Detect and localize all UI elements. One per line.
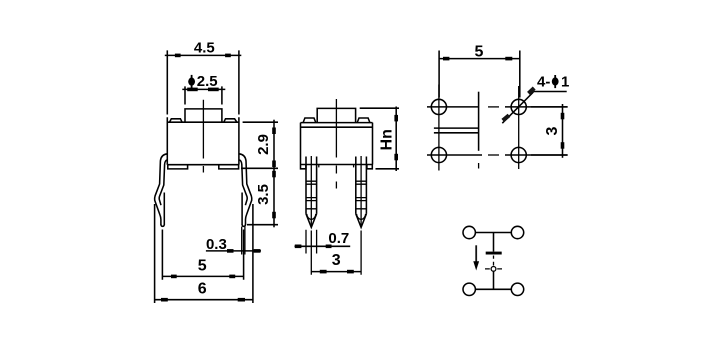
dimension 4.5 extension line left / body left edge bbox=[166, 50, 168, 164]
svg-text:0.3: 0.3 bbox=[206, 236, 227, 253]
dimension 4.5 extension line right / body right edge bbox=[238, 50, 240, 164]
svg-text:3: 3 bbox=[332, 252, 341, 269]
body inner edge upper bbox=[434, 127, 479, 129]
wire bottom terminals bbox=[475, 288, 511, 290]
body right edge bbox=[478, 92, 480, 151]
side view bottom notch ticks bbox=[319, 165, 354, 168]
svg-text:6: 6 bbox=[198, 280, 207, 297]
front view right leg outer edge bbox=[239, 154, 252, 225]
svg-text:0.7: 0.7 bbox=[328, 230, 349, 247]
side view right pin tip bbox=[356, 214, 367, 228]
front view right leg tip strip left edge bbox=[241, 193, 243, 226]
svg-text:4-: 4- bbox=[537, 74, 550, 91]
hole bottom-left bbox=[431, 147, 446, 162]
dimension 0.3 arrow ticks bbox=[227, 249, 261, 253]
front view left leg outer edge bbox=[155, 154, 168, 225]
dimension 6 extension lines bbox=[155, 204, 253, 303]
side view right pin center line bbox=[360, 156, 362, 227]
dimension 0.3 dim line bbox=[206, 250, 261, 252]
side view right pin body bbox=[356, 157, 367, 214]
side view top bump right bbox=[357, 118, 370, 123]
hole top-left bbox=[431, 99, 446, 114]
dimension 3 dim line (top view) bbox=[562, 104, 564, 158]
side view left pin crimp lines bbox=[306, 181, 317, 209]
movable contact bar bbox=[486, 252, 502, 255]
wire contact to bottom bbox=[493, 272, 495, 290]
terminal circle bottom-left bbox=[463, 283, 475, 295]
front view left leg tip strip right edge bbox=[163, 193, 165, 226]
terminal circle top-left bbox=[463, 226, 475, 238]
dimension phi2.5 dim line bbox=[182, 88, 225, 90]
front view foot right bbox=[219, 165, 239, 169]
dimension Hn dim line bbox=[395, 107, 397, 172]
dimension 3 extension lines (side view) bbox=[311, 231, 361, 275]
front view body bbox=[167, 122, 239, 165]
right holes vertical center line bbox=[518, 86, 520, 169]
bottom-left hole horizontal center line / body bottom edge bbox=[427, 154, 482, 156]
label 4-phi1 symbol bbox=[552, 75, 559, 88]
dimension 2.9/3.5 extension line middle (seating plane) bbox=[241, 167, 278, 169]
leader line 4-phi1 landing bbox=[533, 91, 567, 93]
dimension 3 arrow ticks (top view) bbox=[561, 113, 565, 149]
dimension 5 dim line bbox=[162, 275, 243, 277]
wire top to contact bar bbox=[493, 233, 495, 252]
leader line 4-phi1 oblique ticks bbox=[503, 88, 534, 120]
terminal circle top-right bbox=[511, 226, 523, 238]
hidden line dash to bottom-right hole bbox=[488, 154, 499, 156]
dimension phi2.5 symbol bbox=[188, 75, 195, 88]
dimension 3 dim line (side view) bbox=[311, 271, 361, 273]
dimension 5 arrow ticks (top view) bbox=[443, 57, 512, 61]
body inner edge lower bbox=[434, 132, 479, 134]
terminal circle bottom-right bbox=[511, 283, 523, 295]
side view cover lid line bbox=[301, 126, 373, 128]
dimension 5 extension lines bbox=[162, 230, 243, 280]
svg-text:Hn: Hn bbox=[379, 129, 396, 150]
actuation arrow shaft bbox=[475, 245, 477, 262]
front view center line bbox=[202, 100, 204, 173]
top-right hole horizontal center line bbox=[505, 106, 568, 108]
side view top bump left bbox=[303, 118, 316, 123]
hidden line dash to top-right hole bbox=[488, 106, 499, 108]
dimension phi2.5 extension lines bbox=[185, 86, 222, 104]
hole bottom-right bbox=[511, 147, 526, 162]
svg-text:2.9: 2.9 bbox=[255, 134, 272, 155]
front view right leg tip bbox=[242, 225, 245, 227]
dimension 0.7 arrow ticks bbox=[295, 245, 332, 249]
hole top-right bbox=[511, 99, 526, 114]
side view foot left bbox=[301, 165, 306, 169]
dimension 3 extension lines (top view) bbox=[531, 107, 568, 155]
front view left leg inner edge bbox=[159, 160, 167, 205]
side view left pin tip bbox=[306, 214, 317, 228]
front view button stem bbox=[185, 109, 222, 122]
dimension Hn extension line bottom bbox=[376, 168, 400, 170]
dimension 5 arrow ticks bbox=[171, 275, 235, 279]
dimension 0.3 extension lines bbox=[242, 227, 245, 255]
body right edge hidden dash bbox=[478, 163, 480, 169]
dimension 3 arrow ticks (side view) bbox=[320, 270, 354, 274]
front view top bump left bbox=[170, 119, 183, 122]
front view foot left bbox=[168, 165, 188, 169]
svg-text:3: 3 bbox=[544, 126, 561, 135]
front view right leg inner edge bbox=[239, 160, 247, 205]
dimension phi2.5 arrow ticks bbox=[187, 88, 219, 92]
dimension 5 extension lines (top view) bbox=[439, 51, 520, 98]
dimension 4.5 dim line bbox=[165, 54, 242, 56]
dashed line through contact point bbox=[485, 268, 502, 270]
side view left pin tip arc bbox=[307, 214, 316, 219]
dimension 2.9 extension line top bbox=[243, 121, 278, 123]
dimension 2.9/3.5 dim line bbox=[273, 120, 275, 228]
svg-text:1: 1 bbox=[561, 74, 569, 91]
front view left leg tip bbox=[161, 225, 164, 227]
dimension 3.5 arrow ticks bbox=[272, 171, 276, 219]
dashed link bar to contact bbox=[493, 256, 495, 266]
top-left hole horizontal center line / body top edge bbox=[427, 106, 479, 108]
side view button bbox=[317, 108, 355, 122]
svg-text:3.5: 3.5 bbox=[255, 184, 272, 205]
side view right pin crimp lines bbox=[356, 181, 367, 209]
dimension Hn extension line top bbox=[360, 107, 399, 109]
dimension 0.7 extension lines bbox=[306, 230, 317, 254]
dimension 4.5 arrow ticks bbox=[175, 54, 231, 58]
dimension 5 dim line (top view) bbox=[439, 58, 520, 60]
front view top bump right bbox=[224, 119, 237, 122]
side view right pin tip arc bbox=[357, 214, 366, 219]
dimension 6 dim line bbox=[155, 299, 253, 301]
side view left pin body bbox=[306, 157, 317, 214]
bottom-right hole horizontal center line bbox=[505, 154, 568, 156]
dimension 2.9 arrow ticks bbox=[272, 128, 276, 168]
wire top terminals bbox=[475, 232, 511, 234]
svg-text:5: 5 bbox=[475, 44, 484, 61]
contact point circle bbox=[491, 267, 496, 272]
side view body outline bbox=[301, 123, 373, 165]
actuation arrow head bbox=[473, 261, 479, 270]
dimension 6 arrow ticks bbox=[161, 298, 245, 302]
leader line 4-phi1 bbox=[502, 92, 533, 123]
side view foot right bbox=[367, 165, 372, 169]
svg-text:5: 5 bbox=[198, 258, 207, 275]
dimension 3.5 extension line bottom bbox=[247, 224, 278, 226]
dimension 0.7 dim line bbox=[295, 245, 351, 247]
side view left pin center line bbox=[310, 156, 312, 227]
side view center line bbox=[335, 99, 337, 189]
left holes vertical center line bbox=[438, 85, 440, 171]
dimension Hn arrow ticks bbox=[394, 115, 398, 160]
svg-text:4.5: 4.5 bbox=[194, 40, 215, 57]
